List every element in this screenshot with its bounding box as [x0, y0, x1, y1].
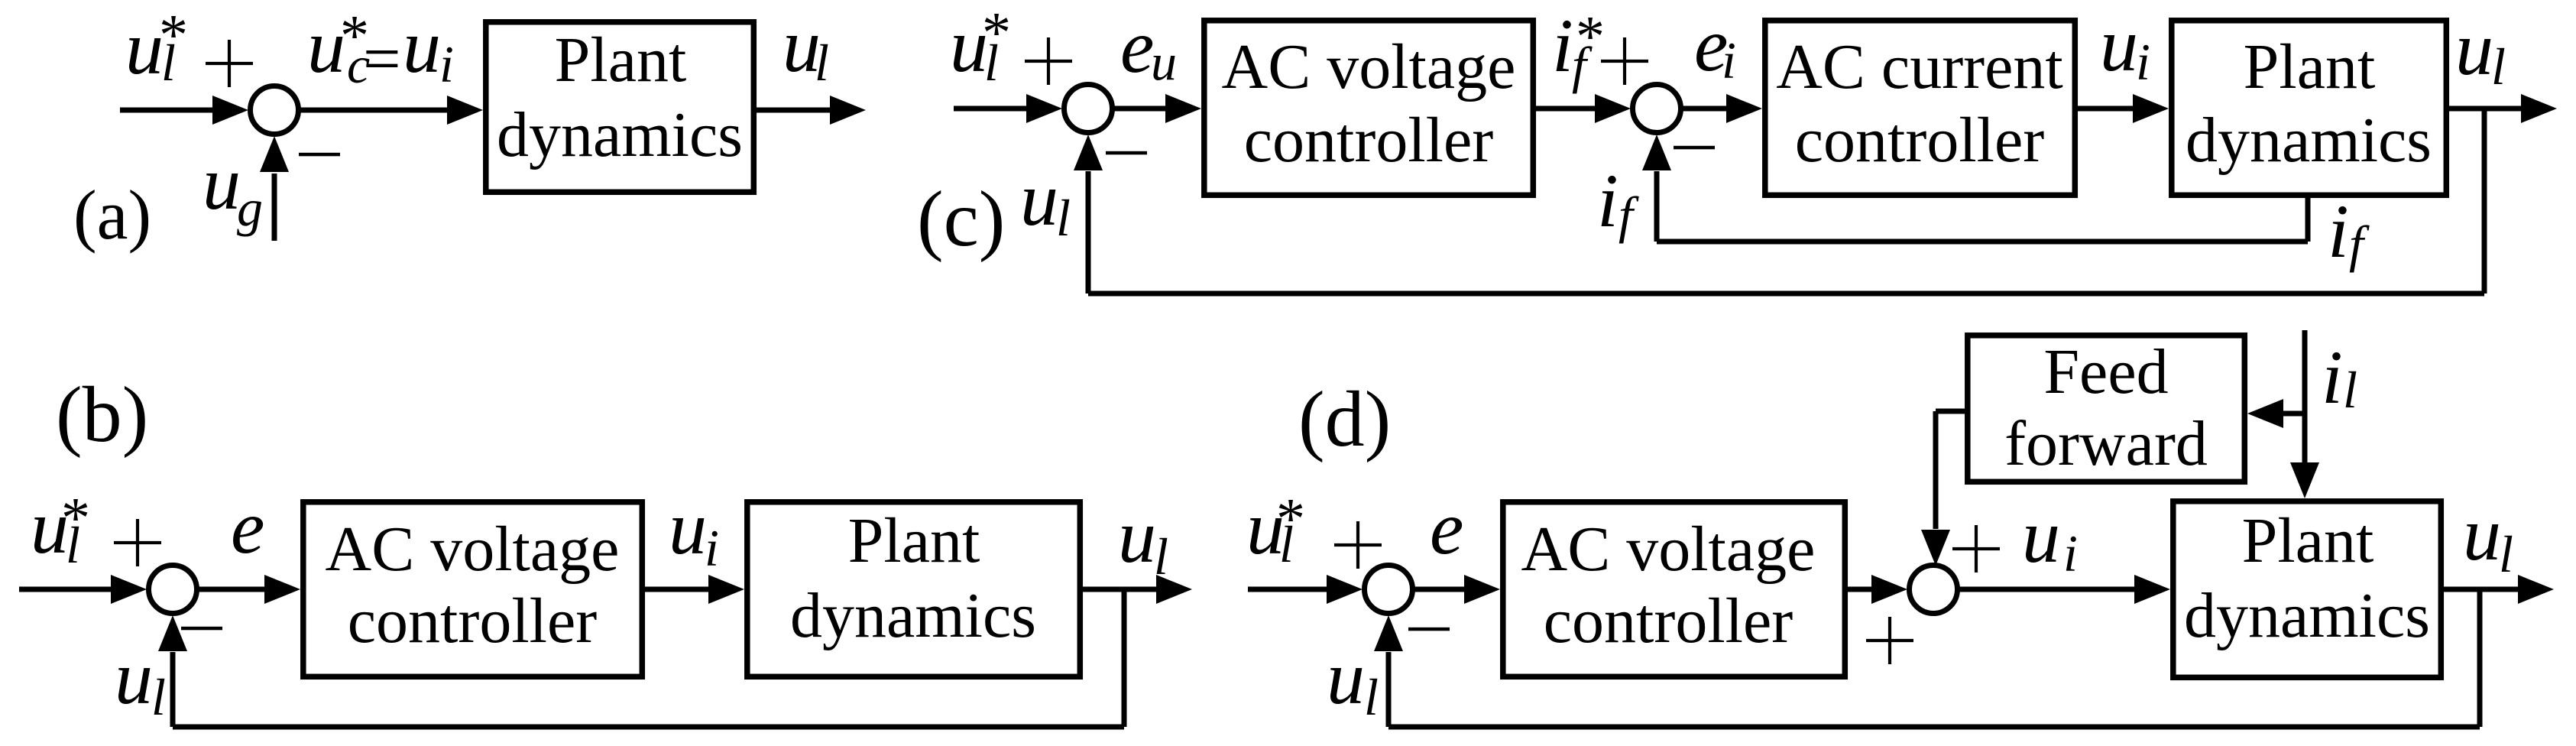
node label u_g disturbance (a)	[203, 141, 263, 237]
node label u_l output (c)	[2455, 6, 2506, 96]
svg-text:i: i	[2063, 524, 2078, 582]
svg-text:(c): (c)	[917, 175, 1005, 263]
node label u_c*=u_i (a)	[307, 4, 454, 96]
wire: summing junction 2 to AC current controller (c)	[1683, 106, 1728, 112]
plus sign at summing junction 1 (d)	[1334, 521, 1382, 569]
svg-text:l: l	[1154, 527, 1168, 585]
wire: AC voltage controller to Plant dynamics (b)	[645, 587, 710, 592]
arrowhead i_l into Plant dynamics (d)	[2290, 462, 2319, 498]
arrowhead into summing junction 2 (d)	[1871, 575, 1907, 604]
wire: u_l feedback tap down (c)	[2482, 109, 2487, 294]
arrowhead into AC voltage controller (c)	[1165, 94, 1201, 123]
svg-text:i: i	[1552, 3, 1573, 88]
summing junction circle 1 (d)	[1365, 566, 1413, 614]
svg-text:u: u	[115, 635, 153, 720]
wire: AC current controller to Plant dynamics (c)	[2078, 106, 2134, 112]
arrowhead output u_l (b)	[1156, 575, 1192, 604]
block Plant dynamics (a)	[486, 22, 754, 193]
wire: u_l feedback up into summing junction 1 (c)	[1086, 171, 1091, 294]
wire: summing junction 1 to AC voltage controller (c)	[1114, 106, 1167, 112]
svg-text:i: i	[2328, 189, 2349, 274]
subfigure label (a)	[73, 176, 151, 254]
svg-text:Plant: Plant	[848, 505, 980, 576]
svg-text:u: u	[203, 141, 241, 225]
block Plant dynamics (c)	[2172, 21, 2447, 196]
node label i_f* reference (c)	[1552, 3, 1605, 94]
svg-text:u: u	[125, 5, 164, 90]
svg-text:Feed: Feed	[2043, 336, 2168, 407]
node label e_i error (c)	[1694, 2, 1736, 89]
node label u_i (b)	[669, 485, 719, 577]
svg-text:u: u	[669, 485, 707, 570]
svg-text:*: *	[61, 486, 90, 550]
arrowhead into summing junction (a)	[212, 96, 248, 125]
svg-text:controller: controller	[1244, 105, 1494, 176]
svg-text:AC voltage: AC voltage	[326, 514, 620, 585]
svg-text:l: l	[2499, 525, 2513, 583]
svg-text:controller: controller	[1544, 585, 1793, 657]
node label i_f feedback left (c)	[1597, 158, 1639, 244]
summing junction circle 2 (c)	[1633, 85, 1681, 133]
node label u_l feedback (d)	[1327, 635, 1379, 726]
minus sign at summing junction (b)	[181, 627, 222, 631]
arrowhead u_g into summing junction (a)	[260, 136, 289, 172]
svg-text:AC voltage: AC voltage	[1222, 31, 1516, 102]
arrowhead i_f into summing junction 2 (c)	[1642, 135, 1671, 170]
summing junction circle 1 (c)	[1064, 85, 1113, 133]
block AC voltage controller (b)	[303, 502, 643, 677]
plus sign at summing junction 1 (c)	[1025, 37, 1072, 85]
block AC current controller (c)	[1765, 21, 2075, 196]
plus sign upper-right of summing junction 2 (d)	[1952, 525, 2000, 572]
wire: u_g disturbance input (a)	[272, 174, 277, 241]
svg-text:i: i	[705, 519, 719, 577]
node label i_l (d)	[2322, 335, 2357, 420]
svg-text:u: u	[2022, 494, 2060, 579]
arrowhead into summing junction 1 (c)	[1026, 94, 1062, 123]
svg-text:i: i	[2322, 335, 2343, 420]
node label u_l feedback (c)	[1020, 157, 1071, 247]
subfigure label (b)	[56, 371, 148, 459]
summing junction circle (b)	[149, 566, 197, 614]
wire: feedback bottom run (b)	[173, 725, 1124, 730]
node label u_l output (d)	[2463, 491, 2513, 583]
arrowhead feedback into summing junction 1 (d)	[1374, 615, 1403, 651]
svg-text:dynamics: dynamics	[2186, 105, 2432, 176]
svg-text:l: l	[151, 668, 166, 726]
svg-text:l: l	[1056, 189, 1071, 247]
wire: feedback bottom run (d)	[1388, 725, 2480, 730]
wire: feedback tap down (d)	[2477, 589, 2483, 727]
subfigure label (c)	[917, 175, 1005, 263]
svg-text:*: *	[1276, 487, 1305, 551]
arrowhead i_l into Feed forward (d)	[2247, 399, 2283, 428]
svg-text:f: f	[2349, 215, 2370, 273]
wire: summing junction to Plant dynamics (a)	[300, 108, 449, 113]
wire: summing junction to AC voltage controller (b)	[199, 587, 267, 592]
svg-text:u: u	[1151, 33, 1177, 91]
wire: u_l feedback bottom run (c)	[1088, 291, 2484, 297]
block AC voltage controller (d)	[1503, 502, 1845, 677]
node label e error (d)	[1430, 485, 1463, 570]
svg-text:*: *	[982, 1, 1011, 65]
svg-text:u: u	[403, 4, 441, 89]
wire: input into summing junction (a)	[120, 108, 215, 113]
svg-text:forward: forward	[2004, 408, 2208, 479]
wire: i_f feedback up into summing junction 2 (c)	[1654, 171, 1660, 242]
wire: AC voltage controller to summing junction 2 (d)	[1848, 587, 1875, 592]
node label u_l* reference input (b)	[31, 485, 90, 574]
plus sign lower-left of summing junction 2 (d)	[1866, 617, 1913, 664]
block Plant dynamics (d)	[2173, 501, 2442, 678]
wire: Plant dynamics output (b)	[1083, 587, 1158, 592]
wire: input into summing junction 1 (d)	[1248, 587, 1330, 592]
svg-text:l: l	[2343, 361, 2357, 419]
arrowhead into Plant dynamics (c)	[2133, 94, 2169, 123]
minus sign at summing junction 2 (c)	[1674, 146, 1715, 150]
minus sign at summing junction (a)	[299, 153, 340, 157]
wire: feedback tap down (b)	[1122, 589, 1127, 727]
arrowhead output u_l (d)	[2518, 575, 2554, 604]
svg-text:controller: controller	[1795, 105, 2045, 176]
arrowhead u_l into summing junction 1 (c)	[1074, 135, 1103, 170]
wire: i_l branch to Feed forward (d)	[2282, 411, 2305, 417]
node label u_l feedback (b)	[115, 635, 166, 726]
svg-text:(b): (b)	[56, 371, 148, 459]
svg-text:u: u	[1327, 635, 1365, 720]
svg-text:u: u	[1118, 494, 1156, 579]
svg-text:=: =	[363, 22, 401, 96]
svg-text:(d): (d)	[1298, 375, 1391, 463]
svg-text:i: i	[2136, 33, 2150, 91]
node label u_i (c)	[2100, 2, 2150, 91]
svg-text:e: e	[231, 485, 264, 569]
wire: summing junction 2 to Plant dynamics (d)	[1959, 587, 2136, 592]
wire: i_l input down into Plant dynamics (d)	[2302, 330, 2308, 464]
arrowhead into Plant dynamics (a)	[447, 96, 483, 125]
svg-text:e: e	[1430, 485, 1463, 570]
svg-text:l: l	[1364, 668, 1379, 726]
node label u_i (d)	[2022, 494, 2078, 582]
svg-text:AC current: AC current	[1776, 31, 2063, 102]
svg-text:f: f	[1619, 186, 1639, 244]
arrowhead feedback into summing junction (b)	[158, 615, 187, 651]
wire: Plant dynamics output (a)	[757, 108, 831, 113]
arrowhead output u_l (c)	[2521, 94, 2557, 123]
minus sign at summing junction 1 (c)	[1106, 151, 1147, 155]
svg-text:u: u	[2100, 2, 2138, 87]
subfigure label (d)	[1298, 375, 1391, 463]
wire: summing junction 1 to AC voltage controller (d)	[1414, 587, 1466, 592]
svg-text:i: i	[1597, 158, 1619, 243]
plus sign at summing junction (a)	[206, 40, 253, 87]
svg-text:i: i	[439, 35, 454, 93]
svg-text:*: *	[159, 3, 188, 67]
arrowhead into summing junction 2 (c)	[1595, 94, 1631, 123]
node label e error (b)	[231, 485, 264, 569]
node label u_l* reference input (d)	[1246, 485, 1305, 573]
wire: feed forward output to summing junction 2 (d)	[1933, 409, 1965, 530]
wire: Plant dynamics output (c)	[2449, 106, 2521, 112]
svg-text:u: u	[1020, 157, 1058, 242]
wire: i_f feedback bottom run (c)	[1657, 239, 2308, 245]
minus sign at summing junction 1 (d)	[1408, 628, 1450, 631]
wire: i_f tap down from Plant dynamics (c)	[2305, 198, 2311, 242]
svg-text:*: *	[1576, 5, 1605, 69]
wire: input into summing junction (b)	[19, 587, 115, 592]
block Plant dynamics (b)	[747, 502, 1081, 677]
svg-text:Plant: Plant	[2244, 31, 2376, 102]
arrowhead into Plant dynamics (d)	[2134, 575, 2170, 604]
svg-text:e: e	[1120, 4, 1154, 89]
svg-text:Plant: Plant	[555, 24, 687, 96]
svg-text:dynamics: dynamics	[790, 580, 1036, 651]
arrowhead into AC voltage controller (d)	[1464, 575, 1500, 604]
node label e_u error (c)	[1120, 4, 1177, 91]
arrowhead output u_l (a)	[830, 96, 866, 125]
arrowhead into summing junction 1 (d)	[1327, 575, 1363, 604]
svg-text:i: i	[1722, 31, 1736, 89]
svg-text:dynamics: dynamics	[497, 99, 743, 170]
node label u_l* reference input (c)	[950, 1, 1011, 92]
block AC voltage controller (c)	[1204, 21, 1534, 196]
svg-text:dynamics: dynamics	[2184, 580, 2430, 651]
svg-text:l: l	[2491, 37, 2506, 96]
wire: feedback up into summing junction (b)	[170, 652, 176, 727]
node label u_l output (b)	[1118, 494, 1168, 585]
svg-text:u: u	[2455, 6, 2493, 91]
svg-text:controller: controller	[348, 585, 598, 657]
wire: feedback up into summing junction 1 (d)	[1386, 652, 1392, 727]
arrowhead into AC current controller (c)	[1726, 94, 1762, 123]
arrowhead feed forward into summing junction 2 (d)	[1921, 530, 1950, 566]
svg-text:l: l	[815, 34, 829, 92]
node label u_l* reference input (a)	[125, 3, 188, 92]
svg-text:u: u	[2463, 491, 2501, 576]
plus sign at summing junction (b)	[114, 519, 161, 566]
wire: AC voltage controller to summing junction 2 (c)	[1536, 106, 1596, 112]
arrowhead into AC voltage controller (b)	[264, 575, 300, 604]
block Feed forward (d)	[1968, 336, 2245, 482]
arrowhead into Plant dynamics (b)	[708, 575, 744, 604]
svg-text:AC voltage: AC voltage	[1521, 514, 1816, 585]
node label u_l output (a)	[783, 3, 829, 92]
wire: Plant dynamics output (d)	[2444, 587, 2519, 592]
node label i_f feedback right (c)	[2328, 189, 2370, 274]
summing junction circle (a)	[251, 86, 299, 135]
svg-text:(a): (a)	[73, 176, 151, 254]
arrowhead into summing junction (b)	[111, 575, 147, 604]
wire: input into summing junction 1 (c)	[954, 106, 1029, 112]
summing junction circle 2 (d)	[1910, 566, 1958, 614]
svg-text:g: g	[237, 179, 263, 237]
plus sign at summing junction 2 (c)	[1601, 37, 1648, 85]
svg-text:Plant: Plant	[2242, 505, 2374, 576]
